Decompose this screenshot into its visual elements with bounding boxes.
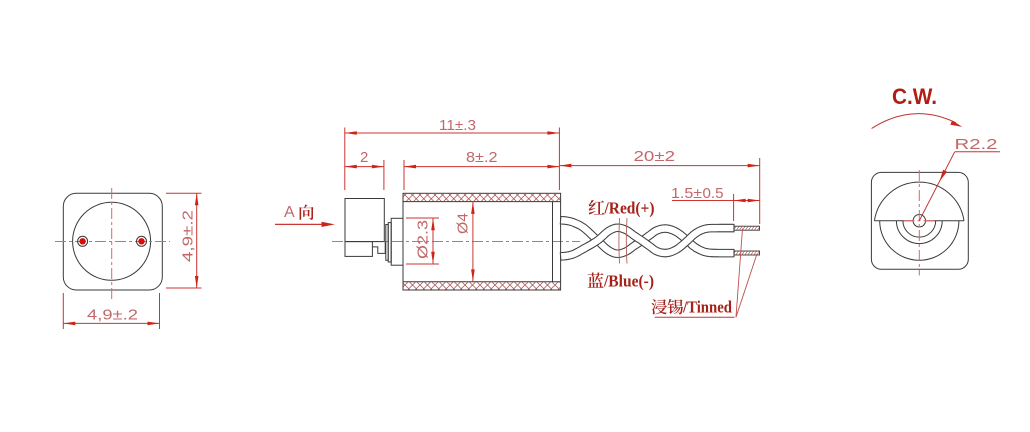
bearing hub — [391, 218, 403, 265]
tinned tip bottom — [734, 251, 760, 255]
svg-text:Ø4: Ø4 — [455, 213, 472, 234]
dim line Ø2.3 — [432, 218, 434, 264]
svg-text:A: A — [284, 204, 295, 221]
ext line body right — [558, 128, 560, 191]
weight arc inner — [903, 221, 936, 237]
dim 8±.2 — [404, 166, 559, 168]
terminal right outline — [137, 236, 147, 246]
wire A band — [560, 217, 734, 258]
cable break mark 2 — [625, 218, 628, 264]
counterweight lower lobe — [345, 242, 372, 257]
tinned underline — [655, 316, 735, 318]
housing rounded square right view — [871, 172, 968, 269]
terminal left outline — [78, 236, 88, 246]
tinned leader 2 — [736, 254, 757, 317]
counterweight main block — [345, 199, 384, 242]
vertical centerline right view — [918, 170, 920, 276]
terminal right red dot — [138, 238, 144, 244]
shaft washer 1 — [386, 225, 388, 261]
svg-text:4,9±.2: 4,9±.2 — [180, 210, 197, 262]
horizontal centerline right view — [904, 220, 936, 222]
label red wire — [589, 200, 605, 215]
terminal left red dot — [79, 238, 85, 244]
extension lines bottom dim 4.9 — [62, 293, 64, 329]
R2.2 arrowhead — [940, 170, 948, 182]
tinned leader 1 — [736, 229, 743, 318]
dimension line vertical 4.9±.2 — [196, 193, 198, 288]
shaft hub circle — [913, 215, 925, 227]
ext line weight left — [344, 128, 346, 191]
dimension line bottom 4.9±.2 — [63, 322, 159, 324]
end cap inner line — [552, 202, 554, 282]
horizontal centerline front view — [55, 241, 170, 243]
svg-text:2: 2 — [360, 149, 368, 166]
bottom wall crosshatch — [404, 282, 561, 290]
svg-text:R2.2: R2.2 — [955, 136, 998, 153]
R2.2 leader line — [919, 152, 954, 221]
svg-text:4,9±.2: 4,9±.2 — [87, 307, 138, 324]
dim 2 — [345, 166, 384, 168]
dim 1.5±0.5 — [672, 200, 760, 202]
C.W. rotation arrow — [872, 114, 956, 129]
shaft washer 2 — [388, 223, 391, 262]
svg-text:/Blue(-): /Blue(-) — [603, 272, 654, 291]
cable break mark 1 — [618, 218, 621, 264]
bottom wall inner line — [403, 281, 561, 283]
R2.2 underline — [955, 151, 1000, 153]
svg-text:20±2: 20±2 — [634, 148, 676, 165]
top wall crosshatch — [404, 194, 561, 202]
svg-text:0.5: 0.5 — [703, 185, 724, 202]
svg-text:11±.3: 11±.3 — [439, 117, 476, 134]
weight arc outer — [896, 221, 942, 244]
weight chord line — [874, 220, 964, 222]
tinned tip top — [734, 226, 760, 230]
A-view arrow — [275, 223, 326, 225]
ext lines Ø2.3 — [406, 217, 439, 219]
svg-text:1.5±: 1.5± — [671, 185, 702, 202]
ext line body left — [403, 160, 405, 190]
dim line Ø4 — [472, 202, 474, 282]
ext line wire end — [759, 158, 761, 224]
dim 11±.3 — [345, 132, 560, 134]
ext line tin start — [733, 194, 735, 221]
side view axis centerline — [332, 241, 580, 243]
label tinned — [651, 299, 667, 314]
motor can bottom semicircle — [880, 221, 959, 261]
motor housing front (rounded square) — [63, 193, 162, 290]
ext line weight right — [383, 160, 385, 190]
svg-text:8±.2: 8±.2 — [466, 149, 498, 166]
eccentric weight top cap arc — [874, 182, 964, 221]
end cap circle — [73, 202, 151, 280]
top wall inner line — [403, 201, 561, 203]
vertical centerline front view — [111, 188, 113, 302]
svg-text:Ø2.3: Ø2.3 — [415, 220, 432, 259]
counterweight step / shaft boss — [372, 242, 385, 254]
svg-text:/Red(+): /Red(+) — [604, 199, 655, 218]
dim 20±2 — [559, 165, 759, 167]
label blue wire — [588, 273, 604, 288]
svg-text:/Tinned: /Tinned — [682, 298, 732, 317]
motor body outline — [403, 193, 561, 290]
svg-text:C.W.: C.W. — [892, 84, 937, 109]
wire B band — [560, 224, 734, 260]
extension lines right dim 4.9 — [166, 192, 202, 194]
